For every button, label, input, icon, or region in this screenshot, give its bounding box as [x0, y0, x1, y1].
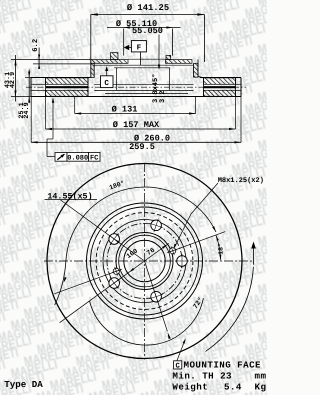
svg-text:C: C	[104, 79, 109, 88]
svg-text:Ø 141.25: Ø 141.25	[127, 3, 169, 13]
svg-text:F: F	[137, 45, 142, 53]
svg-text:MOUNTING FACE: MOUNTING FACE	[184, 360, 262, 371]
svg-text:18°: 18°	[217, 243, 224, 255]
svg-text:M8x1.25(x2): M8x1.25(x2)	[218, 176, 264, 185]
svg-text:24.9: 24.9	[23, 102, 31, 118]
svg-text:259.5: 259.5	[129, 142, 155, 152]
svg-text:Type DA: Type DA	[4, 379, 43, 390]
svg-text:Weight: Weight	[172, 382, 208, 393]
svg-text:FC: FC	[90, 154, 98, 162]
svg-text:3.2: 3.2	[159, 90, 167, 103]
svg-text:0.080: 0.080	[67, 154, 88, 162]
svg-text:C: C	[176, 362, 181, 370]
svg-text:Ø 157 MAX: Ø 157 MAX	[113, 120, 160, 130]
svg-text:Kg: Kg	[255, 382, 267, 393]
svg-text:Min. TH 23: Min. TH 23	[172, 371, 232, 382]
svg-text:mm: mm	[255, 371, 267, 382]
svg-text:14.55(x5): 14.55(x5)	[47, 192, 92, 202]
svg-text:55.050: 55.050	[132, 26, 163, 36]
svg-text:5.4: 5.4	[224, 382, 242, 393]
svg-text:42.9: 42.9	[9, 72, 17, 88]
